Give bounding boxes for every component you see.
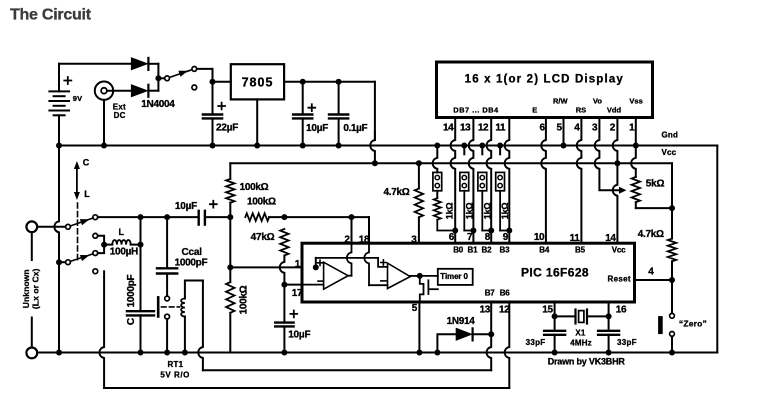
junction R pullup on Vcc rail <box>416 160 422 166</box>
svg-text:B3: B3 <box>500 246 511 255</box>
plus sign C6 <box>210 201 217 208</box>
ground drop to switch pole <box>54 146 59 263</box>
junction U1a plus input <box>313 264 319 270</box>
wire zero button to ground rail <box>671 336 673 352</box>
resistor R 4.7k reset <box>668 239 676 262</box>
wire Vcc drop to 4.7k <box>671 208 673 239</box>
wire PIC reset pin 4 <box>635 279 673 281</box>
wire LCD pin1 Vss to ground <box>635 118 637 146</box>
wire throw L down to inductor <box>98 236 104 245</box>
junction pin5 ground <box>416 350 422 356</box>
junction C7 ground <box>281 350 287 356</box>
jumper JP2 block <box>460 172 469 190</box>
wire LCD pin12 data line DB5 <box>487 118 492 244</box>
wire pin17 line <box>284 284 302 286</box>
capacitor C5 Ccal 1000pF <box>157 267 177 269</box>
regulator U2 7805 box <box>231 64 284 99</box>
bottom ground rail <box>37 352 717 354</box>
wire relay coil drive down <box>198 281 203 371</box>
tank line vertical <box>140 217 142 245</box>
wire lower throw to line B <box>99 271 104 388</box>
battery B1 9V <box>58 64 60 92</box>
wire jack to diode D2 <box>107 90 131 92</box>
svg-text:33pF: 33pF <box>526 338 546 347</box>
svg-text:Vo: Vo <box>593 97 602 106</box>
potentiometer R contrast 5k <box>632 177 640 202</box>
junction 1k to PIC pin <box>470 228 476 234</box>
switch gang dashed link <box>77 203 79 262</box>
svg-text:PIC 16F628: PIC 16F628 <box>521 265 589 279</box>
svg-text:L: L <box>119 227 125 237</box>
wire Vcc rail right drop <box>671 163 673 208</box>
push button Zero bottom <box>670 332 675 337</box>
junction bias node on tank line <box>227 214 233 220</box>
wire relay coil top <box>185 281 203 299</box>
svg-text:9V: 9V <box>73 94 83 103</box>
svg-text:B4: B4 <box>539 246 550 255</box>
svg-text:Vss: Vss <box>629 97 642 106</box>
terminal unknown bottom <box>26 348 37 359</box>
wire U1a minus input <box>302 284 324 286</box>
resistor R 4.7k pullup <box>418 163 420 188</box>
svg-text:10µF: 10µF <box>175 201 197 212</box>
svg-text:1kΩ: 1kΩ <box>500 203 510 220</box>
junction C9 ground <box>606 350 612 356</box>
svg-text:12: 12 <box>478 123 489 134</box>
svg-text:0.1µF: 0.1µF <box>343 123 367 134</box>
wire LCD pin11 data line DB4 <box>505 118 510 244</box>
svg-text:1kΩ: 1kΩ <box>445 203 455 220</box>
capacitor C2 22uF <box>212 82 214 115</box>
wire Vdd feed to PIC pin14 <box>613 163 618 243</box>
wire PIC pin2 up <box>351 217 353 243</box>
Vcc rail <box>230 162 672 164</box>
wire reset node to zero button <box>671 280 673 313</box>
svg-text:4: 4 <box>648 266 654 277</box>
comparator U1a triangle <box>324 262 349 289</box>
switch S2a throw C <box>93 215 98 220</box>
push button Zero top <box>670 313 675 318</box>
ground rail <box>59 145 717 147</box>
svg-text:16 x 1(or 2) LCD Display: 16 x 1(or 2) LCD Display <box>465 74 624 86</box>
wire 7805 output <box>284 81 375 83</box>
svg-text:B1: B1 <box>468 246 479 255</box>
svg-text:B2: B2 <box>482 246 493 255</box>
junction 5V feed on Vcc rail <box>372 160 378 166</box>
junction jumper JP3 ground tap <box>479 143 485 149</box>
comparator U1b minus <box>381 280 386 282</box>
svg-text:1000pF: 1000pF <box>175 257 208 268</box>
svg-text:Timer 0: Timer 0 <box>440 272 468 281</box>
svg-text:6: 6 <box>540 123 546 134</box>
junction pin15 crystal <box>552 313 558 319</box>
wire 1k bottom to pin <box>464 230 473 232</box>
wire PIC pin13 down to line A <box>487 302 492 370</box>
svg-text:DB7 ... DB4: DB7 ... DB4 <box>453 105 499 114</box>
svg-text:15: 15 <box>542 305 553 316</box>
wire bias node <box>229 203 231 217</box>
junction pin16 crystal <box>606 313 612 319</box>
junction R/W ground <box>561 143 567 149</box>
switch S1 throw unused <box>192 85 197 90</box>
wire 1k bottom to pin <box>437 220 455 231</box>
svg-text:B7: B7 <box>485 288 496 297</box>
wire bias node down <box>229 217 231 267</box>
svg-text:9: 9 <box>503 232 509 243</box>
switch S2a throw L <box>93 233 98 238</box>
svg-text:“Zero”: “Zero” <box>679 318 707 328</box>
wire S1 to 7805 input <box>197 68 213 70</box>
svg-text:7: 7 <box>467 232 473 243</box>
wire 1N914 anode feed <box>437 334 456 352</box>
switch S2b pole <box>66 260 71 265</box>
resistor R bias upper 100k <box>226 179 234 203</box>
svg-text:1: 1 <box>629 123 635 134</box>
wire 1k channel 2 <box>463 191 465 231</box>
resistor R8 47k <box>280 229 288 256</box>
svg-text:100kΩ: 100kΩ <box>247 197 276 208</box>
svg-text:B0: B0 <box>453 246 464 255</box>
wire LCD pin4 RS line <box>577 118 582 244</box>
battery + sign <box>64 77 71 84</box>
wire junction to switch S1 <box>158 77 164 79</box>
junction ground drop lower pole <box>56 259 62 265</box>
junction battery on ground rail <box>56 143 62 149</box>
switch S2b throw lower <box>93 269 98 274</box>
svg-text:5: 5 <box>412 303 418 314</box>
wire C7 to ground rail <box>283 326 285 352</box>
wire output to Timer 0 <box>420 275 438 277</box>
resistor R bias lower 100k (vertical) <box>226 282 234 313</box>
wire 5V feed down <box>374 82 376 140</box>
wire LCD pin2 Vdd line <box>613 118 618 164</box>
svg-text:10µF: 10µF <box>288 329 310 340</box>
capacitor C9 33pF <box>608 316 610 330</box>
capacitor C8 33pF <box>554 316 556 330</box>
svg-text:13: 13 <box>460 123 471 134</box>
svg-text:RS: RS <box>576 105 586 114</box>
svg-text:Gnd: Gnd <box>662 131 679 140</box>
LCD module 16x1 display box <box>437 62 653 118</box>
svg-text:5: 5 <box>557 123 563 134</box>
junction 1N914 pin13 <box>488 331 494 337</box>
svg-text:11: 11 <box>495 123 506 134</box>
diode D3 1N914 <box>456 328 471 340</box>
svg-text:5kΩ: 5kΩ <box>646 179 665 190</box>
junction pot bottom Vcc drop <box>669 205 675 211</box>
svg-text:3: 3 <box>592 123 598 134</box>
junction Ccal tap <box>164 214 170 220</box>
svg-text:16: 16 <box>616 305 627 316</box>
wire jack down to ground rail <box>103 100 105 146</box>
wire LCD pin5 R/W to ground <box>563 118 565 146</box>
wire Vss line to contrast pot <box>631 146 636 177</box>
svg-text:DC: DC <box>114 111 126 120</box>
junction relay contact ground <box>164 350 170 356</box>
svg-text:Vcc: Vcc <box>662 148 677 157</box>
gate symbol T0CKI <box>420 276 424 302</box>
terminal unknown top <box>26 221 37 232</box>
inductor L 100uH <box>104 244 112 246</box>
svg-text:4: 4 <box>574 123 580 134</box>
wire jumper JP2 stub <box>463 146 465 155</box>
relay RT1 coil <box>181 299 185 317</box>
junction 7805 ground <box>254 143 260 149</box>
wire tank cap to ground rail <box>140 315 142 352</box>
wire throw C to tank line <box>98 216 141 218</box>
PIC U1 16F628 box <box>302 243 635 302</box>
svg-text:10µF: 10µF <box>306 123 328 134</box>
junction tank ground <box>138 350 144 356</box>
svg-text:100kΩ: 100kΩ <box>238 285 249 314</box>
wire line A relay drive <box>203 369 491 371</box>
plus sign C3 <box>308 104 315 111</box>
svg-text:C: C <box>83 158 90 168</box>
relay contact bottom <box>165 314 170 319</box>
junction 1k to PIC pin <box>452 228 458 234</box>
wire PIC pin12 down to line B <box>505 302 510 388</box>
junction C4 ground <box>336 143 342 149</box>
svg-text:C: C <box>126 318 137 325</box>
wire 47k to cap C7 <box>280 256 285 285</box>
plus sign C2 <box>218 103 225 110</box>
wire jumper JP4 stub <box>499 146 501 155</box>
wire PIC pin15 <box>554 302 556 316</box>
junction jack ground <box>101 143 107 149</box>
wire bias lower to ground rail <box>229 313 231 353</box>
svg-text:8: 8 <box>485 232 491 243</box>
svg-text:1N4004: 1N4004 <box>141 99 175 110</box>
svg-text:Drawn by VK3BHR: Drawn by VK3BHR <box>548 357 626 367</box>
junction 1N914 ground <box>434 350 440 356</box>
relay contact bar <box>157 297 160 316</box>
svg-text:Vdd: Vdd <box>607 105 622 114</box>
relay contact dashed link <box>162 306 180 308</box>
svg-text:R/W: R/W <box>553 97 569 106</box>
crystal X1 4MHz <box>574 310 576 324</box>
svg-text:10: 10 <box>534 232 545 243</box>
wire node A corner to PIC pin18 <box>368 217 370 243</box>
wire throw upper to inductor <box>98 245 104 254</box>
comparator U1a plus <box>317 260 322 265</box>
svg-text:RT1: RT1 <box>168 360 184 369</box>
wire 1k channel 3 <box>481 191 483 231</box>
junction Vdd feed on Vcc rail <box>614 160 620 166</box>
comparator U1b triangle <box>388 263 411 288</box>
wire Ccal branch <box>166 217 168 268</box>
junction tank top <box>138 214 144 220</box>
svg-text:(Lx or Cx): (Lx or Cx) <box>31 268 41 309</box>
switch S2b throw upper <box>93 251 98 256</box>
wire jumper JP1 feed <box>433 146 438 173</box>
svg-text:47kΩ: 47kΩ <box>251 232 275 243</box>
junction reset node <box>669 277 675 283</box>
junction node 7805 input <box>210 79 216 85</box>
switch S1 power pole <box>165 76 170 81</box>
junction jumper JP4 ground tap <box>497 143 503 149</box>
svg-text:100kΩ: 100kΩ <box>240 182 269 193</box>
wire series cap to bias node <box>207 216 230 218</box>
wire lower pole <box>59 261 66 263</box>
junction bias tap to comparator + <box>227 264 233 270</box>
junction C8 ground <box>552 350 558 356</box>
wire bias to comparator + input pin1 <box>230 266 302 268</box>
wire 4.7k to reset node <box>671 261 673 280</box>
wire tank line <box>141 216 197 218</box>
svg-text:Ccal: Ccal <box>182 247 203 258</box>
wire top terminal to switch pole <box>37 226 65 228</box>
Timer 0 box <box>438 269 473 285</box>
svg-text:E: E <box>532 105 537 114</box>
plus sign C7 <box>290 311 297 318</box>
junction 1k to PIC pin <box>506 228 512 234</box>
junction node C4 top <box>336 79 342 85</box>
wiper arrowhead into pot <box>619 187 627 194</box>
wire Ccal to relay contact <box>166 274 168 297</box>
wire PIC pin5 to ground <box>418 302 420 353</box>
junction 47k top <box>281 214 287 220</box>
wire crystal left <box>555 315 576 317</box>
wire LCD pin14 data line DB7 <box>451 118 456 244</box>
capacitor C4 0.1uF <box>338 82 340 115</box>
diode D1 1N4004 (battery) <box>131 58 147 70</box>
junction relay coil ground <box>182 350 188 356</box>
wire relay contact to ground rail <box>166 319 168 353</box>
jumper JP1 block <box>433 172 442 190</box>
wire 1k bottom to pin <box>500 230 509 232</box>
switch S2a lever <box>70 218 93 226</box>
svg-text:X1: X1 <box>575 328 586 337</box>
junction terminal ground <box>56 350 62 356</box>
switch S2a pole <box>66 224 71 229</box>
capacitor C3 10uF <box>302 82 304 115</box>
junction C2 ground <box>210 143 216 149</box>
wire LCD pin6 E line <box>541 118 546 244</box>
wire Vcc rail to bias chain <box>229 163 231 179</box>
svg-text:L: L <box>84 189 90 199</box>
capacitor C7 10uF <box>275 321 293 323</box>
wire crystal right <box>587 315 609 317</box>
svg-text:13: 13 <box>480 304 491 315</box>
svg-text:6: 6 <box>449 232 455 243</box>
connector J1 Ext DC jack <box>95 82 113 100</box>
wire 1k bottom to pin <box>482 230 491 232</box>
capacitor C tank 1000pF <box>127 310 154 312</box>
wire ground rail right drop <box>716 146 718 353</box>
wire LCD pin13 data line DB6 <box>469 118 474 244</box>
comparator U1a minus <box>318 280 323 282</box>
junction comparator out tap <box>349 214 355 220</box>
wire 7805 ground pin <box>256 99 258 145</box>
svg-text:4MHz: 4MHz <box>570 339 592 348</box>
wire jumper JP3 stub <box>481 146 483 155</box>
wire 1N914 cathode to pin13 line <box>474 333 492 335</box>
junction node diodes <box>155 75 161 81</box>
wire inner horizontal to U1b plus <box>316 258 388 267</box>
svg-text:5V R/O: 5V R/O <box>160 371 190 380</box>
switch S2b lever <box>70 254 93 262</box>
wire 1k channel 4 <box>499 191 501 231</box>
svg-text:100µH: 100µH <box>110 247 138 258</box>
svg-text:1kΩ: 1kΩ <box>482 203 492 220</box>
junction pin17 tap <box>281 282 287 288</box>
svg-text:B6: B6 <box>500 288 511 297</box>
diode D2 1N4004 (ext dc) <box>131 85 147 97</box>
svg-text:B5: B5 <box>575 246 586 255</box>
switch S1 throw top <box>192 67 197 72</box>
junction node C3 top <box>300 79 306 85</box>
svg-text:2: 2 <box>610 123 616 134</box>
junction inductor left <box>101 242 107 248</box>
capacitor C6 series 10uF <box>197 211 199 225</box>
junction Vss ground <box>633 143 639 149</box>
jumper JP3 block <box>478 172 487 190</box>
resistor R 1k channel 1 <box>434 198 441 220</box>
svg-text:12: 12 <box>499 304 510 315</box>
wire pot bottom to Vcc drop <box>635 202 637 208</box>
junction zero ground <box>669 350 675 356</box>
C L selector arrow <box>76 167 78 195</box>
svg-text:7805: 7805 <box>242 75 274 89</box>
junction jumper JP1 ground tap <box>434 143 440 149</box>
wire tank node to 47k <box>269 216 284 218</box>
svg-text:The Circuit: The Circuit <box>10 7 92 24</box>
svg-text:33pF: 33pF <box>617 338 637 347</box>
svg-text:4.7kΩ: 4.7kΩ <box>638 229 664 240</box>
wire pin18 to U1b minus (jog) <box>364 243 369 285</box>
wire pin2 to comparator out (jog) <box>347 243 352 276</box>
svg-text:1N914: 1N914 <box>447 316 476 327</box>
svg-text:14: 14 <box>443 123 454 134</box>
svg-text:Reset: Reset <box>608 274 631 283</box>
push button Zero bar <box>658 318 663 331</box>
jumper JP4 block <box>496 172 505 190</box>
relay contact top <box>165 296 170 301</box>
svg-text:4.7kΩ: 4.7kΩ <box>384 187 410 198</box>
comparator U1b plus <box>381 260 386 265</box>
wire line B guard <box>104 387 509 389</box>
wire PIC pin16 <box>608 302 610 316</box>
wire between terminals <box>31 232 33 260</box>
wire battery top to diode D1 <box>59 63 131 65</box>
svg-text:22µF: 22µF <box>216 123 238 134</box>
junction comparator output <box>417 273 423 279</box>
wire LCD pin3 Vo line <box>595 118 621 191</box>
junction inductor right <box>138 242 144 248</box>
wire D1 cathode to junction <box>150 63 159 65</box>
junction C3 ground <box>300 143 306 149</box>
switch S1 lever <box>169 70 192 78</box>
wire U1b output <box>410 275 420 277</box>
resistor R 100k horizontal <box>245 213 269 221</box>
svg-text:1kΩ: 1kΩ <box>464 203 474 220</box>
wire U1a plus input feed up <box>315 258 317 268</box>
svg-text:1: 1 <box>295 259 301 270</box>
svg-text:Vcc: Vcc <box>612 246 626 255</box>
wire node A to pin2 <box>284 216 369 218</box>
junction 1k to PIC pin <box>488 228 494 234</box>
wire D2 cathode to junction <box>150 90 159 92</box>
svg-text:1000pF: 1000pF <box>126 274 137 307</box>
junction jumper JP2 ground tap <box>461 143 467 149</box>
wire relay coil bottom to ground <box>184 317 186 353</box>
